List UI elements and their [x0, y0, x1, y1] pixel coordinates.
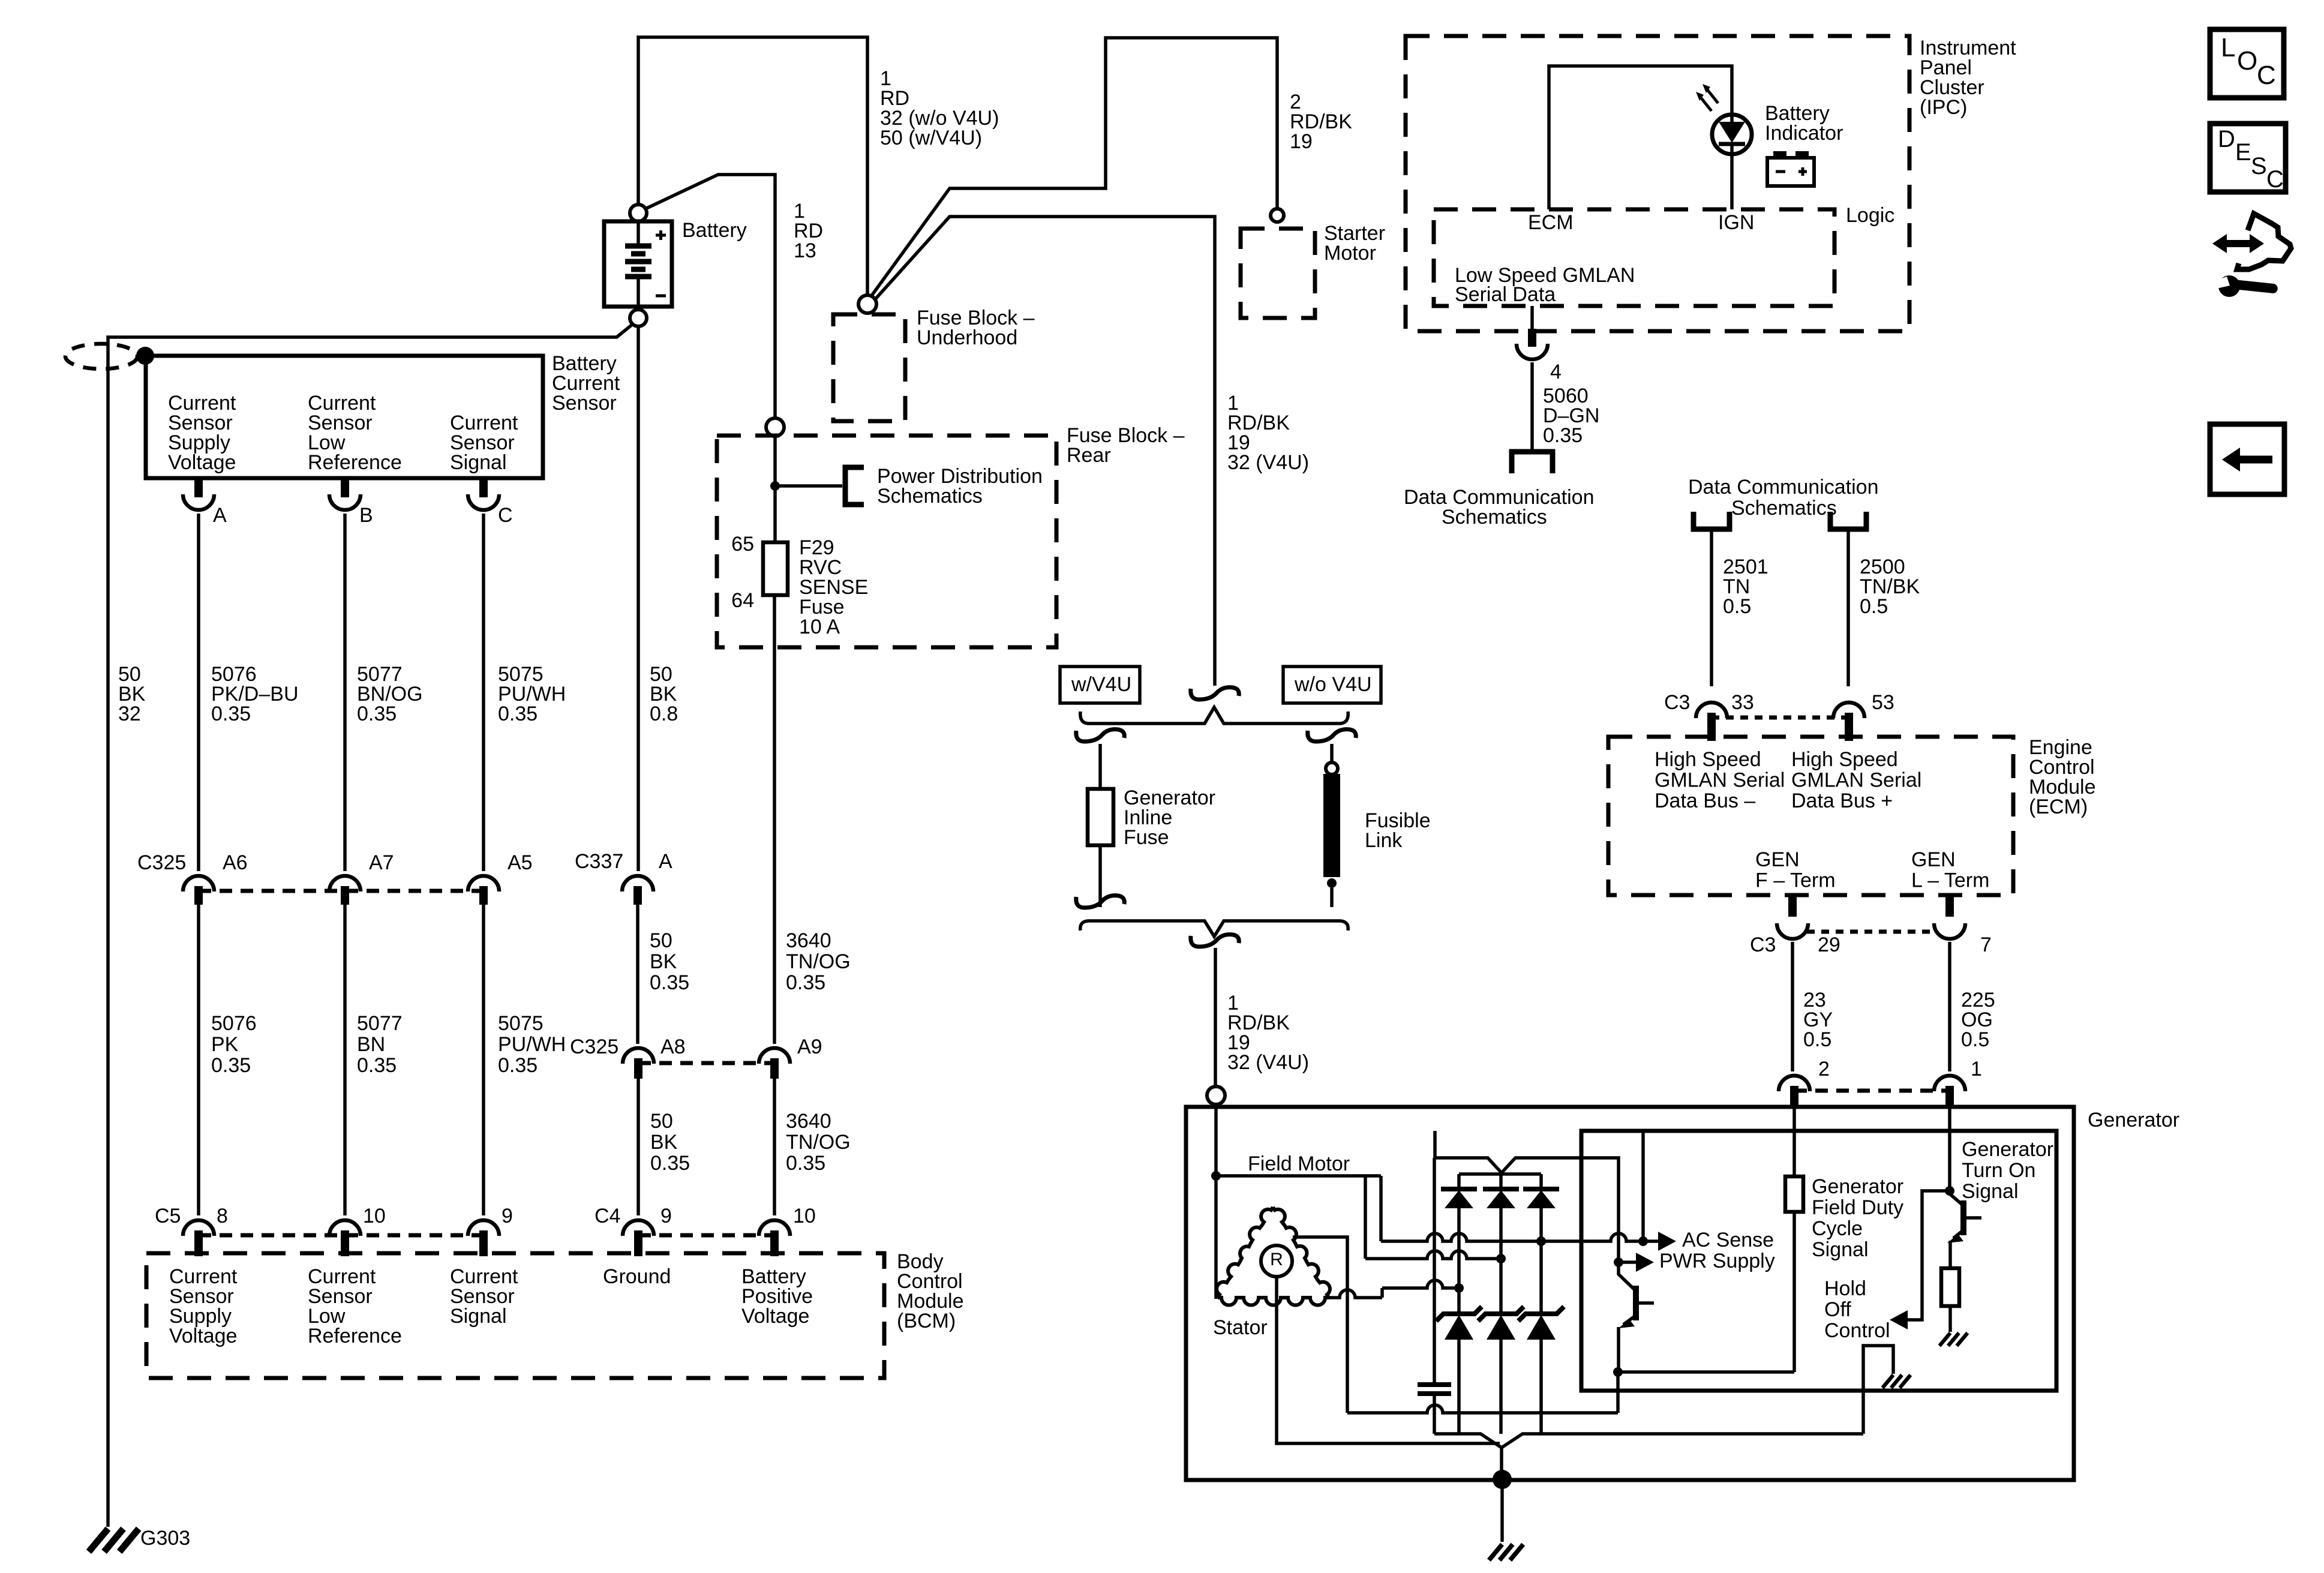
- svg-text:A9: A9: [797, 1035, 822, 1058]
- rectifier diode upper 3: [1539, 1174, 1543, 1189]
- connector C5 pin 8: [183, 1220, 214, 1236]
- stator right vertex tap: [1329, 1290, 1382, 1298]
- wire below C337: [636, 905, 639, 1044]
- stator delta winding: [1217, 1207, 1273, 1298]
- tag box w/V4U: [1060, 667, 1140, 703]
- svg-text:Data Communication: Data Communication: [1688, 476, 1878, 499]
- wire 2 RD/BK 19 to starter motor: [871, 38, 1277, 296]
- svg-text:2: 2: [1818, 1058, 1830, 1080]
- fusible link top circle: [1326, 763, 1338, 775]
- IPC logic dashed box: [1434, 209, 1834, 306]
- generator B+ rail: [1435, 1131, 1619, 1261]
- rectifier diode lower 1 (avalanche): [1436, 1307, 1482, 1321]
- option break upper: [1191, 688, 1239, 700]
- rotor circle R: [1261, 1245, 1292, 1277]
- wire from sensor pin B: [343, 514, 347, 871]
- battery cell plates: [636, 221, 640, 245]
- connector C325 pin A7: [329, 876, 361, 891]
- turn on pull resistor: [1941, 1268, 1959, 1306]
- svg-text:A8: A8: [660, 1035, 686, 1058]
- power distribution schematics tab bracket: [845, 467, 864, 505]
- rotor return wire: [1277, 1277, 1500, 1443]
- svg-text:A6: A6: [223, 851, 248, 874]
- wire 2500 TN/BK 0.5: [1846, 529, 1850, 686]
- junction node at battery current sensor: [136, 347, 154, 365]
- wire generator inline fuse branch: [1098, 744, 1102, 907]
- battery box: [604, 221, 672, 307]
- svg-text:PWR Supply: PWR Supply: [1659, 1250, 1775, 1272]
- svg-text:A7: A7: [369, 851, 394, 874]
- wire 1 RD/BK to generator: [1214, 948, 1217, 1087]
- phase B row wire: [1365, 1251, 1501, 1259]
- fusible link bottom node: [1327, 878, 1337, 888]
- svg-text:O: O: [2237, 46, 2257, 76]
- generator pin 1 connector: [1934, 1076, 1965, 1091]
- svg-text:CurrentSensorSupplyVoltage: CurrentSensorSupplyVoltage: [169, 1265, 238, 1347]
- data comm tab for 2500: [1830, 512, 1866, 529]
- svg-text:C325: C325: [570, 1035, 618, 1058]
- instrument panel cluster dashed box: [1406, 36, 1909, 331]
- generator feed wire to stator: [1214, 1104, 1218, 1299]
- wire into F29 fuse: [773, 436, 777, 542]
- resistor ground stem: [1948, 1306, 1952, 1332]
- ground G303 symbol: [89, 1529, 139, 1551]
- fuse block rear connector circle: [766, 418, 784, 436]
- junction node field branch: [1211, 1171, 1221, 1181]
- svg-text:BatteryCurrentSensor: BatteryCurrentSensor: [552, 352, 620, 415]
- generator case ground: [1489, 1544, 1523, 1560]
- svg-text:Schematics: Schematics: [1442, 506, 1547, 529]
- svg-text:65: 65: [731, 533, 754, 556]
- stator sense return row: [1347, 1405, 1618, 1413]
- capacitor bus wire: [1433, 1158, 1436, 1434]
- ECM connector C3 pin 53: [1833, 703, 1864, 718]
- body control module BCM dashed box: [146, 1253, 884, 1378]
- generator turn on signal wire: [1948, 1109, 1951, 1191]
- connector C325 inline dashes: [199, 889, 484, 893]
- wire below A9: [773, 1079, 776, 1215]
- svg-text:Battery: Battery: [682, 219, 747, 242]
- svg-text:C337: C337: [575, 850, 623, 873]
- engine control module dashed box: [1608, 737, 2013, 895]
- ground link from bottom rail: [1500, 1448, 1503, 1479]
- junction node phase A to column 3: [1536, 1236, 1546, 1246]
- wire from sensor pin C: [482, 514, 485, 871]
- svg-text:64: 64: [731, 589, 754, 612]
- tag box w/o V4U: [1283, 667, 1381, 703]
- rectifier diode upper 2: [1499, 1174, 1503, 1189]
- svg-text:CurrentSensorSupplyVoltage: CurrentSensorSupplyVoltage: [168, 392, 236, 474]
- option break fuse bottom: [1076, 896, 1125, 908]
- rectifier diode upper 1: [1457, 1174, 1461, 1189]
- fuse block underhood dashed box: [833, 314, 905, 421]
- svg-text:10: 10: [363, 1205, 386, 1227]
- svg-text:C5: C5: [155, 1205, 181, 1227]
- C3 connector dashes: [1712, 716, 1849, 720]
- connector C325 pin A8: [623, 1048, 654, 1064]
- generator inline fuse element: [1088, 789, 1113, 845]
- hold off control wire: [1908, 1191, 1950, 1320]
- generator B+ terminal circle: [1207, 1086, 1225, 1104]
- svg-text:C: C: [2257, 61, 2276, 90]
- battery plus sign: [656, 230, 666, 240]
- svg-text:w/V4U: w/V4U: [1071, 673, 1131, 696]
- svg-text:Generator: Generator: [2088, 1109, 2179, 1131]
- battery current sensor box: [146, 356, 543, 478]
- option break fuse top: [1076, 730, 1125, 742]
- svg-text:C325: C325: [137, 851, 186, 874]
- wire below C325 pin A6: [197, 905, 200, 1215]
- svg-text:C: C: [2266, 166, 2284, 193]
- wire emitter node to field resistor: [1618, 1370, 1794, 1374]
- transistor Q2 turn on: [1950, 1194, 1962, 1205]
- svg-text:33: 33: [1731, 691, 1754, 714]
- svg-text:C: C: [498, 504, 513, 527]
- field riser to phase B: [1364, 1176, 1367, 1259]
- stator apex tap wire: [1293, 1237, 1347, 1413]
- svg-text:Field Motor: Field Motor: [1248, 1152, 1350, 1175]
- rectifier diode lower 3 (avalanche): [1518, 1307, 1564, 1321]
- turn on circuit ground: [1939, 1333, 1968, 1346]
- IPC serial data pin 4: [1530, 306, 1534, 329]
- wire 5060 D-GN 0.35: [1530, 362, 1534, 449]
- data comm tab for 2501: [1694, 512, 1730, 529]
- junction node power distribution tap: [770, 481, 780, 491]
- svg-text:L: L: [2221, 33, 2235, 62]
- option break lower: [1191, 935, 1239, 947]
- split brace upper: [1080, 707, 1348, 724]
- upper diode common rail: [1459, 1172, 1541, 1176]
- fusible link element: [1323, 774, 1340, 877]
- generator ground stem: [1500, 1479, 1504, 1542]
- connector C337 pin A: [622, 876, 653, 891]
- LOC navigation box: [2210, 29, 2284, 98]
- wire 2501 TN 0.5: [1710, 529, 1713, 686]
- svg-text:29: 29: [1818, 933, 1840, 956]
- field motor wire: [1216, 1176, 1381, 1241]
- starter motor terminal circle: [1271, 209, 1284, 222]
- svg-text:9: 9: [660, 1205, 672, 1227]
- svg-text:Stator: Stator: [1213, 1316, 1268, 1339]
- fuse F29 element: [763, 542, 788, 595]
- svg-text:53: 53: [1872, 691, 1894, 714]
- wire below A8: [636, 1079, 640, 1215]
- svg-text:9: 9: [502, 1205, 513, 1227]
- ECM pin 29 terminal: [1788, 895, 1797, 917]
- connector C5 pin 10: [329, 1220, 361, 1236]
- AC sense arrow: [1658, 1232, 1676, 1251]
- generator outer box: [1186, 1107, 2074, 1480]
- option break link top: [1308, 730, 1356, 742]
- AC sense feed from regulator: [1641, 1131, 1645, 1241]
- svg-text:IGN: IGN: [1718, 211, 1754, 234]
- svg-text:A: A: [659, 850, 672, 873]
- svg-text:Fuse Block –Underhood: Fuse Block –Underhood: [917, 307, 1035, 349]
- wire 50 BK 0.8 battery negative down: [636, 326, 640, 871]
- fuse block rear dashed box: [717, 436, 1056, 647]
- ECM connector C3 pin 33: [1696, 703, 1727, 718]
- C325 A8-A9 dashes: [638, 1061, 774, 1065]
- svg-text:A5: A5: [508, 851, 533, 874]
- wire below C325 pin A5: [482, 905, 485, 1215]
- svg-text:Schematics: Schematics: [1731, 497, 1837, 520]
- wire battery negative to ground G303 (50 BK): [108, 324, 633, 1527]
- LED diode triangle: [1719, 122, 1745, 143]
- connector C4 dashes: [638, 1233, 774, 1238]
- bottom rail ground branch: [1863, 1346, 1893, 1434]
- rectifier bottom rail: [1434, 1434, 1863, 1448]
- sensor pin C terminal: [479, 478, 488, 497]
- wire fusible link branch: [1330, 744, 1334, 907]
- svg-text:BatteryPositiveVoltage: BatteryPositiveVoltage: [741, 1265, 813, 1328]
- back arrow navigation box: [2210, 424, 2284, 494]
- C3 lower connector dashes: [1807, 930, 1935, 934]
- DESC navigation box: [2210, 124, 2286, 192]
- connector C325 pin A6: [183, 876, 214, 891]
- PWR supply junction node: [1614, 1257, 1623, 1267]
- junction node emitter return: [1613, 1367, 1623, 1377]
- svg-text:ECM: ECM: [1528, 211, 1574, 234]
- sensor pin A terminal: [194, 478, 203, 497]
- battery minus sign: [656, 295, 666, 298]
- junction node AC sense: [1638, 1236, 1648, 1246]
- svg-text:C3: C3: [1664, 691, 1690, 714]
- battery indicator icon: [1767, 158, 1814, 186]
- fuse block underhood connector circle: [858, 295, 876, 313]
- twisted-loop dashed ellipse on ground wire: [65, 344, 137, 369]
- LED emission arrows: [1700, 88, 1718, 111]
- wrench navigation icon: [2226, 240, 2251, 247]
- svg-text:E: E: [2235, 139, 2251, 166]
- connector C4 pin 9: [623, 1220, 654, 1236]
- svg-text:1: 1: [1971, 1058, 1982, 1080]
- phase C row wire: [1382, 1280, 1459, 1288]
- junction node turn on signal: [1945, 1186, 1954, 1196]
- svg-text:w/o V4U: w/o V4U: [1294, 673, 1372, 696]
- AC sense row wire: [1381, 1233, 1659, 1241]
- transistor Q1 power supply: [1619, 1262, 1635, 1290]
- svg-text:7: 7: [1980, 933, 1992, 956]
- regulator ground: [1882, 1375, 1911, 1388]
- wire 23 GY 0.5: [1791, 942, 1794, 1071]
- svg-text:AC Sense: AC Sense: [1682, 1229, 1774, 1251]
- junction node phase B to column 2: [1496, 1254, 1506, 1263]
- wire 1 RD 13 from battery positive: [645, 175, 775, 418]
- svg-text:Ground: Ground: [603, 1265, 671, 1288]
- connector C325 pin A9: [759, 1048, 790, 1064]
- svg-text:A: A: [213, 504, 227, 527]
- battery negative terminal circle: [630, 310, 647, 326]
- split brace lower: [1080, 921, 1348, 936]
- svg-text:10: 10: [793, 1205, 816, 1227]
- connector C5 pin 9: [468, 1220, 499, 1236]
- svg-text:S: S: [2251, 153, 2267, 179]
- battery positive terminal circle: [630, 205, 647, 221]
- sensor pin B terminal: [341, 478, 349, 497]
- rectifier diode lower 2 (avalanche): [1478, 1307, 1524, 1321]
- generator field duty cycle resistor: [1792, 1109, 1796, 1176]
- battery B+ wire to top rail: [638, 37, 867, 295]
- wire 3640 TN/OG from fuse to A9: [773, 595, 776, 1044]
- connector C325 pin A5: [468, 876, 499, 891]
- svg-text:4: 4: [1550, 361, 1562, 383]
- generator pin 2 connector: [1779, 1076, 1810, 1091]
- generator ground node: [1493, 1470, 1512, 1489]
- wire from sensor pin A: [197, 514, 200, 871]
- capacitor C1: [1418, 1382, 1451, 1387]
- starter motor dashed box: [1241, 229, 1315, 318]
- wire below C325 pin A7: [343, 905, 347, 1215]
- connector C5 dashes: [199, 1233, 484, 1238]
- svg-text:G303: G303: [140, 1527, 190, 1550]
- PWR supply arrow: [1619, 1260, 1637, 1264]
- wire 225 OG 0.5: [1948, 942, 1951, 1071]
- wire to power distribution tab: [775, 484, 842, 488]
- wire 1 RD/BK 19 to generator split: [873, 217, 1215, 686]
- svg-text:C3: C3: [1750, 933, 1776, 956]
- svg-text:EngineControlModule(ECM): EngineControlModule(ECM): [2029, 736, 2096, 818]
- svg-text:B: B: [359, 504, 373, 527]
- svg-text:8: 8: [217, 1205, 228, 1227]
- ECM pin 7 terminal: [1945, 895, 1954, 917]
- svg-text:Logic: Logic: [1846, 204, 1894, 227]
- data communication schematics tab (IPC): [1512, 452, 1553, 473]
- svg-text:R: R: [1270, 1250, 1283, 1269]
- junction node phase C to column 1: [1454, 1283, 1464, 1293]
- regulator inner box: [1581, 1131, 2056, 1391]
- svg-text:StarterMotor: StarterMotor: [1324, 222, 1385, 265]
- IPC internal wire ECM to IGN: [1549, 66, 1732, 209]
- svg-text:C4: C4: [594, 1205, 620, 1227]
- connector C4 pin 10: [759, 1220, 790, 1236]
- generator pins dashes: [1794, 1089, 1950, 1093]
- svg-text:D: D: [2218, 126, 2235, 152]
- battery indicator LED circle: [1712, 115, 1752, 154]
